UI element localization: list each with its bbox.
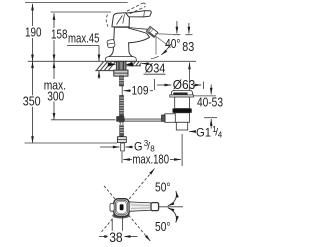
arrow to outlet level (40deg ref) [176, 21, 178, 34]
handle hub [112, 13, 130, 27]
40-degree spray annotation [155, 37, 157, 55]
svg-text:109: 109 [132, 85, 149, 97]
top view lever arm [129, 202, 151, 211]
spout top edge [128, 27, 148, 29]
faucet body (side view) [106, 27, 150, 61]
svg-text:40-53: 40-53 [197, 96, 223, 110]
handle swing arc (dashed) [106, 15, 108, 27]
svg-text:38: 38 [109, 230, 123, 245]
wire: 190 top reference line [25, 2, 128, 4]
dimension 190 [32, 4, 34, 62]
threaded shank segment B [120, 96, 124, 116]
dimension 40-53 [210, 85, 212, 95]
svg-text:4: 4 [218, 130, 223, 139]
hose end tube G3/8 [121, 143, 125, 151]
svg-text:158: 158 [51, 27, 68, 41]
svg-text:350: 350 [23, 94, 41, 108]
wire: 158 reference line [51, 11, 112, 13]
dimension 38 [111, 219, 113, 240]
swing arc lower with arrow [168, 208, 177, 223]
swing arc upper with arrow [168, 191, 177, 206]
svg-text:G: G [134, 139, 143, 153]
dimension D63 [154, 79, 156, 90]
svg-text:max.45: max.45 [68, 31, 100, 45]
dimension 350 [32, 61, 34, 142]
lever arm [126, 11, 151, 17]
swing ray arrowhead lower [147, 237, 151, 241]
top view centerline [159, 206, 183, 208]
threaded segment C [120, 125, 124, 137]
faucet base plate [105, 57, 136, 62]
svg-text:83: 83 [182, 40, 194, 54]
label 109 with leader [121, 86, 123, 97]
svg-text:Ø34: Ø34 [145, 62, 166, 76]
cross junction fitting [117, 117, 124, 122]
top view lever tip block [151, 203, 159, 211]
dimension 158 [53, 13, 55, 61]
dimension 83 [188, 23, 190, 34]
faucet shank through deck [116, 61, 126, 70]
top view rear tab [110, 204, 114, 212]
label G1 1/4 with leader [189, 131, 195, 133]
swing ray arrowhead upper [151, 169, 155, 174]
top view dark base ellipse [112, 213, 129, 219]
deck seal left (black) [108, 62, 116, 66]
svg-text:300: 300 [47, 89, 64, 103]
raised lever (dashed) [127, 3, 146, 14]
spout outlet level ticks [173, 34, 180, 36]
deck slab right with hatching [127, 62, 142, 66]
wire: 350 bottom reference line [25, 142, 118, 144]
pop-up waste flange cap [172, 90, 193, 95]
top view body [114, 199, 129, 217]
svg-text:G1: G1 [196, 125, 211, 139]
waste body lower [175, 113, 190, 123]
waste side port [165, 114, 176, 123]
dimension max.300 [53, 61, 55, 119]
waste tailpiece G1 1/4 [176, 122, 187, 130]
svg-text:50°: 50° [155, 180, 171, 194]
pop-up linkage rod to drain [125, 119, 169, 121]
label D34 with leader and underline [142, 63, 145, 65]
deck seal right (black) [126, 62, 133, 66]
wire: 40-53 top reference [193, 95, 216, 97]
dimension max.180 [121, 152, 123, 163]
wire: max.300 reference / pop-up rod line [51, 119, 116, 121]
swing range dashed rays (50 deg) [102, 170, 154, 240]
aerator (tilted) [146, 26, 158, 37]
waste seal ring (black) [173, 109, 192, 113]
hose coupling nut [117, 137, 126, 143]
svg-text:190: 190 [25, 25, 42, 39]
top view cartridge [120, 204, 124, 210]
svg-text:50°: 50° [155, 220, 171, 234]
waste body upper [175, 97, 190, 109]
threaded shank segment A [120, 76, 124, 86]
wire: deck reference line [28, 60, 196, 62]
deck slab left with hatching [95, 62, 116, 71]
label G3/8 with arrows [100, 146, 120, 148]
mounting nut [114, 70, 128, 76]
svg-text:max.180: max.180 [133, 153, 170, 167]
pop-up lift knob [107, 39, 115, 48]
